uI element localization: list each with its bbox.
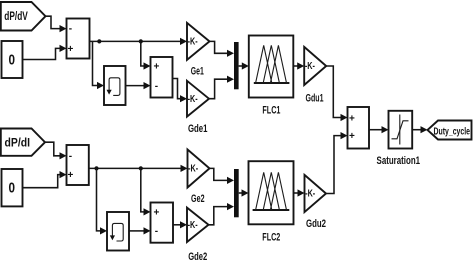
wire Sum2 output to Gde1 (173, 79, 188, 103)
sum block Sum1 (67, 19, 90, 59)
wire Sum3 output to Ge2 (89, 165, 188, 172)
svg-text:Ge1: Ge1 (191, 66, 204, 78)
gain Ge1 (187, 23, 210, 78)
svg-text:+: + (349, 131, 355, 142)
wire branch down to Memory1 (93, 41, 105, 89)
junction node at Sum1 output branch to Sum2 (139, 39, 143, 43)
goto tag dP/dI (1, 129, 45, 156)
sum block Sum4 (151, 203, 174, 243)
svg-text:-K-: -K- (305, 189, 315, 200)
svg-text:+: + (67, 44, 73, 55)
svg-text:FLC1: FLC1 (262, 105, 280, 117)
svg-text:+: + (153, 62, 159, 73)
svg-text:Gdu2: Gdu2 (306, 218, 326, 230)
constant block 0 (upper) (2, 41, 23, 78)
wire Gdu2 to Sum5 lower input (326, 132, 348, 194)
junction node at Sum1 output branch to Memory1 (97, 39, 101, 43)
memory block Memory2 (107, 212, 129, 251)
wire Sum5 to Saturation1 (369, 126, 389, 133)
memory block Memory1 (104, 66, 126, 105)
wire branch down to Sum4 plus input (141, 168, 151, 215)
wire Sum4 output to Gde2 (173, 221, 187, 228)
wire constant 0 to Sum3 plus input (23, 171, 67, 188)
fuzzy logic controller FLC1 (249, 36, 293, 117)
wire Memory2 to Sum4 minus input (129, 227, 151, 234)
gain Gdu2 (305, 175, 327, 230)
wire Mux2 to FLC2 (239, 189, 249, 196)
svg-text:-K-: -K- (188, 94, 198, 105)
svg-text:Gde2: Gde2 (188, 251, 207, 260)
svg-text:-K-: -K- (188, 220, 198, 231)
wire dP/dV to Sum1 minus input (46, 16, 67, 32)
wire Memory1 to Sum2 minus input (126, 82, 151, 89)
svg-text:FLC2: FLC2 (262, 231, 280, 243)
svg-text:dP/dV: dP/dV (4, 9, 28, 23)
sum block Sum3 (67, 145, 89, 185)
gain Gde2 (187, 208, 209, 260)
wire Gdu1 to Sum5 upper input (326, 66, 347, 121)
wire branch down to Memory2 (97, 168, 108, 234)
wire Mux1 to FLC1 (239, 62, 249, 69)
saturation block Saturation1 (377, 111, 421, 167)
svg-text:-K-: -K- (305, 61, 315, 72)
gain Gdu1 (304, 47, 326, 105)
constant block 0 (lower) (2, 169, 23, 206)
svg-text:-: - (69, 24, 72, 35)
junction node at Sum3 output branch to Memory2 (94, 166, 98, 170)
svg-text:-K-: -K- (188, 37, 198, 48)
wire constant 0 to Sum1 plus input (23, 45, 67, 60)
mux Mux2 (234, 169, 239, 217)
fuzzy logic controller FLC2 (249, 161, 294, 243)
junction node at Sum3 output branch to Sum4 (139, 166, 143, 170)
wire FLC1 to Gdu1 (293, 62, 304, 69)
svg-text:Saturation1: Saturation1 (377, 155, 421, 167)
wire Ge1 to Mux1 upper input (210, 41, 235, 57)
gain Gde1 (187, 81, 209, 135)
svg-text:+: + (67, 170, 73, 181)
svg-text:Ge2: Ge2 (191, 193, 205, 205)
svg-text:+: + (349, 113, 355, 124)
svg-text:dP/dI: dP/dI (5, 136, 31, 150)
sum block Sum5 (348, 107, 370, 149)
wire Saturation1 to Duty_cycle (412, 126, 427, 133)
svg-text:-: - (155, 81, 158, 92)
wire branch down to Sum2 plus input (141, 41, 151, 69)
wire dP/dI to Sum3 minus input (45, 142, 67, 159)
goto tag Duty_cycle (428, 121, 472, 140)
wire Sum1 output to Ge1 (90, 38, 188, 45)
svg-text:Gdu1: Gdu1 (306, 92, 324, 104)
svg-text:-: - (69, 151, 72, 162)
wire Ge2 to Mux2 upper input (210, 168, 235, 184)
svg-text:+: + (153, 207, 159, 218)
svg-text:0: 0 (9, 179, 16, 196)
svg-text:-: - (155, 226, 158, 237)
wire Gde2 to Mux2 lower input (209, 203, 235, 225)
gain Ge2 (188, 150, 210, 206)
svg-text:Duty_cycle: Duty_cycle (434, 126, 471, 138)
svg-text:-K-: -K- (188, 164, 198, 175)
wire Gde1 to Mux1 lower input (209, 76, 234, 99)
svg-text:Gde1: Gde1 (188, 123, 208, 135)
svg-text:0: 0 (9, 51, 16, 68)
wire FLC2 to Gdu2 (294, 189, 305, 196)
goto tag dP/dV (1, 2, 46, 31)
sum block Sum2 (151, 57, 173, 98)
mux Mux1 (234, 42, 239, 89)
